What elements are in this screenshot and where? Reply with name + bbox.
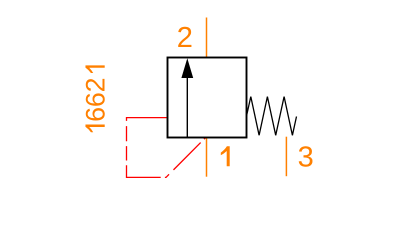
- pilot line (red dashed): [127, 118, 206, 178]
- spring: [247, 97, 297, 136]
- port line 3: [285, 137, 287, 177]
- valve body: [168, 58, 247, 138]
- svg-text:3: 3: [298, 141, 314, 173]
- svg-text:2: 2: [177, 22, 193, 54]
- device tag 16621 (rotated): [81, 65, 111, 132]
- flow arrow head: [181, 58, 193, 78]
- port line 2: [206, 18, 208, 58]
- flow arrow shaft: [186, 70, 188, 138]
- port line 1: [206, 138, 208, 177]
- svg-text:662: 662: [81, 78, 111, 122]
- port label 1: [221, 146, 230, 166]
